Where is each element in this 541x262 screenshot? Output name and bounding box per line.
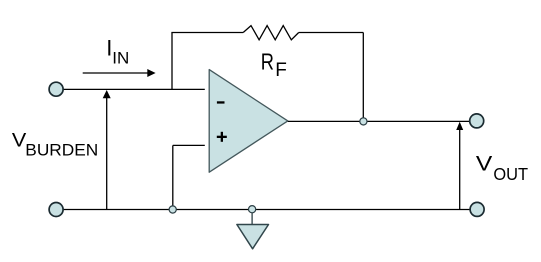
node: feedback/output junction — [360, 118, 367, 125]
resistor RF — [243, 26, 299, 40]
arrow VBURDEN sense — [106, 97, 108, 210]
terminal: input bottom — [49, 203, 63, 217]
wire: inverting input wire from left terminal — [64, 88, 205, 90]
wire: feedback left vertical riser — [171, 33, 173, 90]
node: non-inverting input junction on bottom rail — [169, 206, 176, 213]
terminal: output bottom — [470, 202, 484, 216]
wire: top feedback wire left segment — [171, 32, 243, 34]
wire: non-inverting input horizontal — [173, 144, 205, 146]
op-amp U1 — [209, 70, 288, 173]
wire: bottom rail — [64, 209, 470, 211]
wire: feedback right vertical down to output — [362, 33, 364, 122]
svg-text:V: V — [476, 153, 492, 176]
wire: ground stem — [251, 213, 253, 225]
wire: output wire — [288, 120, 470, 122]
svg-text:BURDEN: BURDEN — [25, 141, 98, 160]
op-amp plus pin label — [217, 136, 227, 138]
arrow IIN current direction — [83, 72, 149, 74]
ground — [237, 225, 269, 249]
terminal: input top — [49, 82, 63, 96]
node: ground junction on bottom rail — [249, 206, 256, 213]
wire: top feedback wire right segment — [299, 32, 364, 34]
svg-text:F: F — [275, 60, 287, 81]
svg-text:OUT: OUT — [493, 164, 528, 184]
svg-text:IN: IN — [112, 49, 129, 68]
wire: non-inverting input vertical down to ground rail — [172, 145, 174, 209]
op-amp minus pin label — [217, 101, 225, 103]
svg-text:R: R — [261, 49, 274, 75]
terminal: output top — [470, 114, 484, 128]
svg-text:V: V — [12, 130, 26, 152]
arrow VOUT sense — [459, 129, 461, 210]
